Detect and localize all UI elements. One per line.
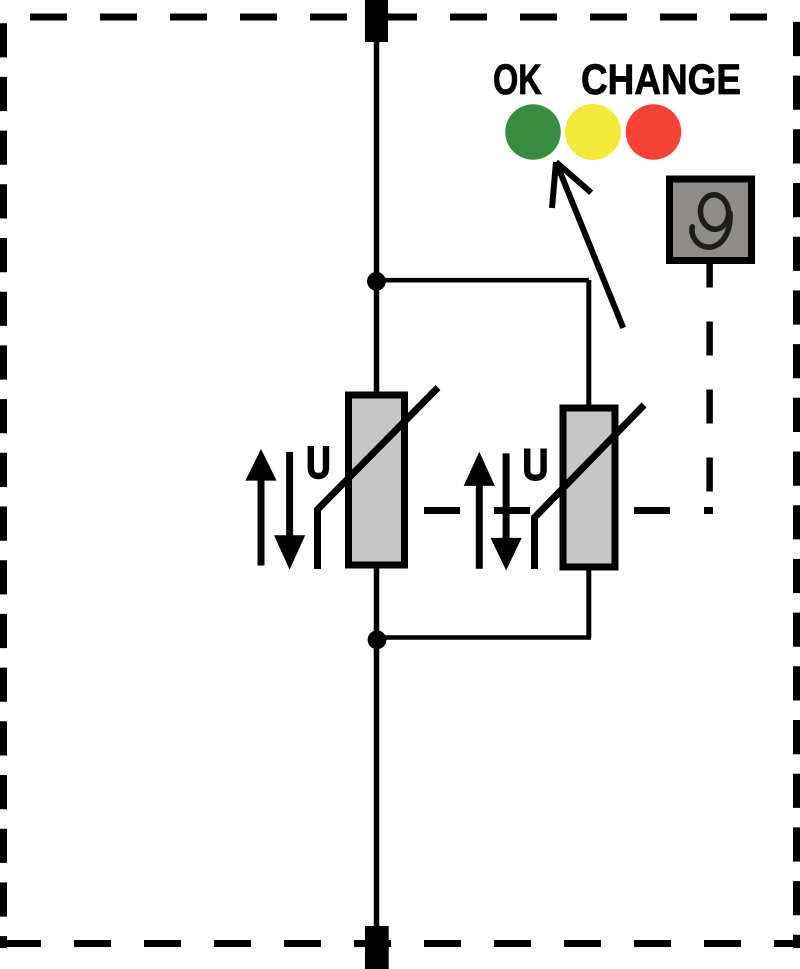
- label U2: [527, 449, 543, 478]
- label U1: [311, 446, 326, 476]
- wire bottom branch horizontal: [377, 635, 592, 640]
- LED yellow: [565, 104, 621, 160]
- indicator arrow to LEDs: [552, 162, 623, 328]
- LED green OK: [505, 104, 561, 160]
- voltage arrow up U2: [476, 480, 483, 569]
- svg-text:OK: OK: [493, 56, 542, 104]
- wire right branch upper vertical: [586, 280, 591, 408]
- dashed link horizontal to varistors: [424, 507, 713, 514]
- varistor RV1 body: [349, 395, 405, 565]
- enclosure dashed outline top: [0, 14, 800, 21]
- terminal top: [365, 0, 388, 42]
- wire main vertical lower: [374, 565, 380, 926]
- terminal bottom: [365, 926, 389, 969]
- wire top branch horizontal: [377, 278, 589, 283]
- svg-text:CHANGE: CHANGE: [581, 56, 741, 104]
- enclosure dashed outline bottom: [0, 940, 800, 947]
- voltage arrow down U1: [286, 452, 293, 542]
- enclosure dashed outline right: [793, 2, 800, 948]
- node junction bottom: [368, 630, 387, 649]
- varistor RV2 diagonal stroke: [535, 405, 645, 569]
- dashed link vertical from thermal disconnect: [706, 264, 713, 518]
- LED red CHANGE: [626, 104, 682, 160]
- voltage arrow down U2: [503, 453, 510, 543]
- wire main vertical upper: [374, 42, 380, 395]
- wire right branch lower vertical: [586, 568, 591, 638]
- thermal disconnect theta glyph: [692, 193, 730, 247]
- varistor RV1 diagonal stroke: [318, 388, 439, 570]
- thermal disconnect box: [670, 179, 752, 261]
- node junction top: [367, 272, 386, 291]
- varistor RV2 body: [563, 408, 615, 567]
- enclosure dashed outline left: [0, 4, 7, 948]
- voltage arrow up U1: [258, 475, 265, 566]
